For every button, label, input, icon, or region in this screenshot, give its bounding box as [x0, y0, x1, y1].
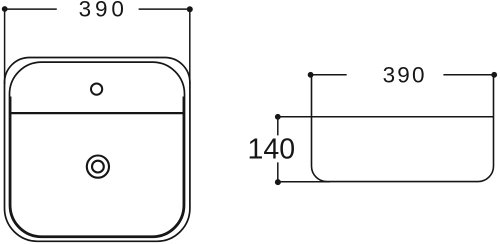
- top edge / dimension line 390: [312, 74, 494, 76]
- dimension dots: [308, 72, 314, 78]
- drain inner: [92, 161, 104, 173]
- dimension line 390 (top view): [5, 9, 190, 84]
- outer rim (rounded square, r25 top / r30 bottom): [5, 58, 190, 242]
- 140 dimension vertical: [277, 117, 279, 182]
- svg-text:390: 390: [79, 0, 128, 21]
- side view body outline: [312, 75, 494, 182]
- inner rim (r28 top / r31 bottom): [10, 62, 185, 237]
- dimension dots 140: [275, 114, 281, 120]
- drain outer: [87, 156, 109, 178]
- svg-text:140: 140: [248, 134, 296, 166]
- svg-text:390: 390: [383, 62, 427, 87]
- bottom extension to dim dot: [278, 181, 330, 183]
- deck chord line: [10, 112, 185, 114]
- rim line: [278, 116, 494, 118]
- dimension dots: [2, 6, 8, 12]
- bowl wall line (below deck chord only): [11, 63, 184, 236]
- faucet hole: [91, 84, 102, 95]
